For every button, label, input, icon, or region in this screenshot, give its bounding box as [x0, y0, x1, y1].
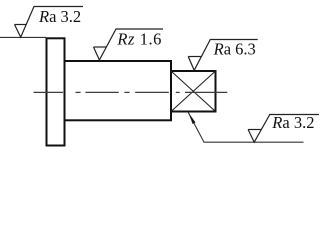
knurl cross diagonal 1	[171, 71, 216, 112]
surface roughness symbol Ra 3.2 (bottom-right, on leader)	[248, 115, 319, 143]
svg-text:Ra 6.3: Ra 6.3	[213, 39, 256, 58]
arrowhead	[188, 113, 195, 124]
shaft body rectangle	[65, 61, 172, 120]
knurl cross diagonal 2	[171, 71, 216, 112]
surface roughness symbol Ra 3.2 (top-left, on flange face extension)	[15, 7, 84, 38]
svg-text:Rz 1.6: Rz 1.6	[116, 30, 162, 49]
leader with arrow to knurled surface	[188, 113, 303, 143]
svg-text:Ra 3.2: Ra 3.2	[38, 7, 81, 26]
flange (left vertical rectangle)	[47, 38, 65, 145]
leader extension line of flange top surface	[0, 36, 46, 38]
knurled end square	[171, 71, 216, 112]
surface roughness symbol Ra 6.3 (on knurled square top)	[188, 40, 258, 71]
svg-text:Ra 3.2: Ra 3.2	[271, 113, 314, 132]
surface roughness symbol Rz 1.6 (on shaft top surface)	[94, 29, 164, 60]
centerline (dash-dot axis)	[34, 91, 228, 93]
